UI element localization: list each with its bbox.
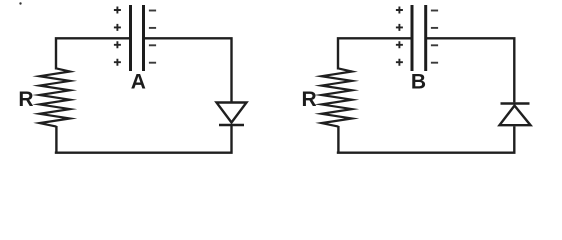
minus charge signs (right of A) [149,11,156,63]
wire bottom segment (left vertical lower + bottom wire + right vertical lower) [55,125,233,153]
diode D1 triangle (points down) [217,103,247,123]
capacitor A left plate [129,5,132,71]
svg-text:B: B [411,71,426,94]
capacitor A right plate [142,5,145,71]
wire top-right segment (right circuit) [426,37,516,102]
resistor R2 zigzag [322,68,353,126]
wire top-left segment (left vertical upper + top wire to capacitor left plate) [55,38,131,69]
plus charge signs (left of A) [114,7,121,66]
minus charge signs (right of B) [431,11,438,63]
diode D2 cathode bar (above triangle) [501,102,530,104]
diode D2 triangle (points up) [500,106,531,126]
svg-text:R: R [302,88,317,111]
wire top-right segment (capacitor right plate to top-right corner, down to diode) [144,37,233,101]
svg-text:R: R [18,88,33,111]
speck artifact top-left [19,2,21,4]
capacitor B right plate [424,5,427,71]
wire top-left segment (right circuit) [337,38,413,69]
plus charge signs (left of B) [396,7,403,66]
svg-text:A: A [131,71,146,94]
capacitor B left plate [411,5,414,71]
resistor R1 zigzag [40,68,71,126]
diode D1 cathode bar [219,124,244,126]
wire bottom segment (right circuit) [337,126,516,153]
